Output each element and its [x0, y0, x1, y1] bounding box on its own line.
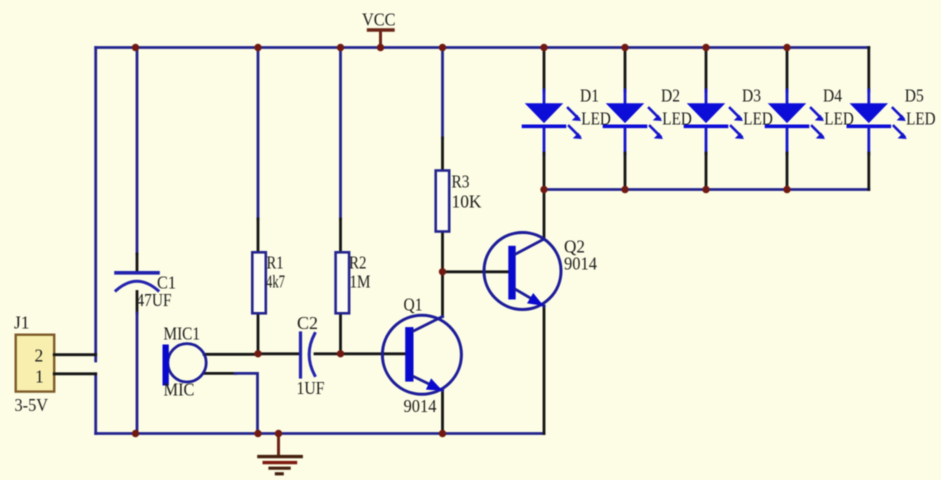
wire: C2 right plate to R2/Q1 base node	[315, 352, 341, 355]
node: VCC rail / D3	[702, 44, 709, 51]
pin: R2 bottom pin	[339, 313, 342, 354]
ground	[259, 434, 301, 474]
pin: Q2 collector pin	[543, 190, 546, 240]
svg-text:MIC1: MIC1	[164, 324, 201, 344]
pin: R1 bottom pin	[257, 313, 260, 354]
wire: R1 top wire	[257, 48, 260, 220]
node: LED bus / D2 cathode	[621, 186, 628, 193]
capacitor C1 47UF	[116, 272, 176, 310]
node: C2 right / R2 bottom / Q1 base	[337, 350, 344, 357]
node: ground rail / Q1 emitter	[439, 430, 446, 437]
node: LED bus / D4 cathode	[783, 186, 790, 193]
wire: mic output to R1/C2 node	[204, 353, 258, 356]
wire: top VCC rail	[96, 46, 869, 49]
node: VCC rail / R3	[439, 44, 446, 51]
node: VCC rail / D4	[783, 44, 790, 51]
capacitor C2 1UF	[297, 313, 325, 398]
node: VCC rail / R2	[337, 44, 344, 51]
wire: C1 bottom wire	[136, 313, 139, 434]
pin: C1 positive pin	[136, 254, 139, 272]
wire: R2 top wire	[339, 48, 342, 220]
wire: left vertical from VCC rail to J1 pin2	[94, 48, 97, 362]
transistor Q1 9014	[382, 295, 461, 417]
pin: R2 top pin	[339, 219, 342, 252]
pin: C1 negative pin	[136, 292, 139, 314]
svg-text:D4: D4	[823, 86, 842, 106]
svg-text:D2: D2	[661, 86, 680, 106]
svg-text:VCC: VCC	[362, 10, 396, 30]
svg-text:J1: J1	[14, 313, 30, 333]
svg-text:9014: 9014	[404, 396, 437, 416]
pin: Q1 emitter pin	[441, 390, 444, 434]
svg-text:4k7: 4k7	[266, 271, 285, 291]
pin: J1 pin 2	[54, 353, 95, 356]
node: ground rail / C1	[132, 430, 139, 437]
svg-text:R3: R3	[452, 171, 470, 191]
connector J1	[14, 313, 54, 416]
wire: LED cathode bus rail	[544, 188, 869, 191]
svg-text:1M: 1M	[350, 271, 371, 291]
node: mic output / R1 bottom / C2	[254, 350, 261, 357]
node: LED bus / Q2 collector	[540, 186, 547, 193]
pin: R3 top pin	[441, 138, 444, 171]
resistor R1 4k7	[252, 252, 285, 313]
pin: R3 bottom pin	[441, 231, 444, 272]
node: LED bus / D3 cathode	[702, 186, 709, 193]
node: VCC rail / C1	[132, 44, 139, 51]
LED D1	[524, 48, 611, 190]
node: VCC rail / D2	[621, 44, 628, 51]
wire: bottom ground rail	[96, 432, 544, 435]
svg-text:D1: D1	[580, 86, 599, 106]
svg-text:Q1: Q1	[404, 295, 423, 315]
svg-text:1UF: 1UF	[297, 378, 325, 398]
pin: Q2 emitter pin	[543, 306, 546, 434]
node: R3 bottom / Q1 collector / Q2 base	[439, 268, 446, 275]
power symbol VCC	[362, 10, 396, 48]
pin: Q1 collector pin	[441, 272, 444, 317]
wire: node to Q1 base	[341, 352, 406, 355]
svg-text:R1: R1	[267, 252, 284, 272]
node: VCC rail / VCC symbol	[377, 44, 384, 51]
pin: J1 pin 1	[54, 372, 95, 375]
pin: R1 top pin	[257, 219, 260, 252]
svg-text:2: 2	[35, 346, 44, 366]
svg-text:1: 1	[35, 367, 44, 387]
LED D4	[767, 48, 854, 190]
LED D3	[686, 48, 773, 190]
svg-text:D3: D3	[742, 86, 761, 106]
wire: node R3/Q1 collector to Q2 base	[443, 270, 510, 273]
svg-text:D5: D5	[905, 86, 924, 106]
resistor R3 10K	[436, 171, 482, 232]
wire: mic ground return	[204, 372, 236, 375]
microphone MIC1	[163, 324, 207, 400]
svg-text:LED: LED	[906, 109, 936, 129]
node: VCC rail / R1	[254, 44, 261, 51]
node: VCC rail / D1	[540, 44, 547, 51]
wire: R3 top wire	[441, 48, 444, 139]
wire: node to C2 left plate	[258, 352, 301, 355]
svg-text:C2: C2	[297, 313, 318, 333]
LED D5	[848, 48, 935, 190]
wire: C1 top wire	[136, 48, 139, 255]
wire: left vertical from J1 pin1 to ground rail	[94, 374, 97, 434]
svg-text:10K: 10K	[452, 192, 482, 212]
node: ground rail / mic return	[254, 430, 261, 437]
svg-text:R2: R2	[349, 252, 367, 272]
svg-text:47UF: 47UF	[137, 290, 172, 310]
resistor R2 1M	[336, 252, 371, 313]
LED D2	[605, 48, 692, 190]
node: ground rail / ground symbol	[275, 430, 282, 437]
svg-text:MIC: MIC	[164, 380, 195, 400]
transistor Q2 9014	[484, 233, 597, 310]
svg-text:9014: 9014	[564, 254, 597, 274]
svg-text:3-5V: 3-5V	[15, 395, 49, 415]
